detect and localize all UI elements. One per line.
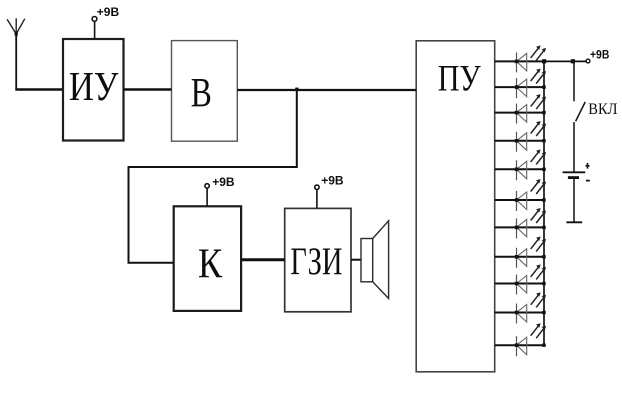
svg-text:В: В <box>191 69 212 115</box>
svg-text:К: К <box>198 240 223 287</box>
svg-text:ГЗИ: ГЗИ <box>290 241 342 283</box>
svg-text:ИУ: ИУ <box>69 64 119 110</box>
svg-text:ПУ: ПУ <box>438 59 481 99</box>
svg-text:ВКЛ: ВКЛ <box>588 100 617 118</box>
svg-text:+9В: +9В <box>321 174 344 188</box>
svg-text:+9В: +9В <box>97 5 120 19</box>
svg-text:+9В: +9В <box>590 49 609 62</box>
svg-text:+9В: +9В <box>212 175 235 189</box>
